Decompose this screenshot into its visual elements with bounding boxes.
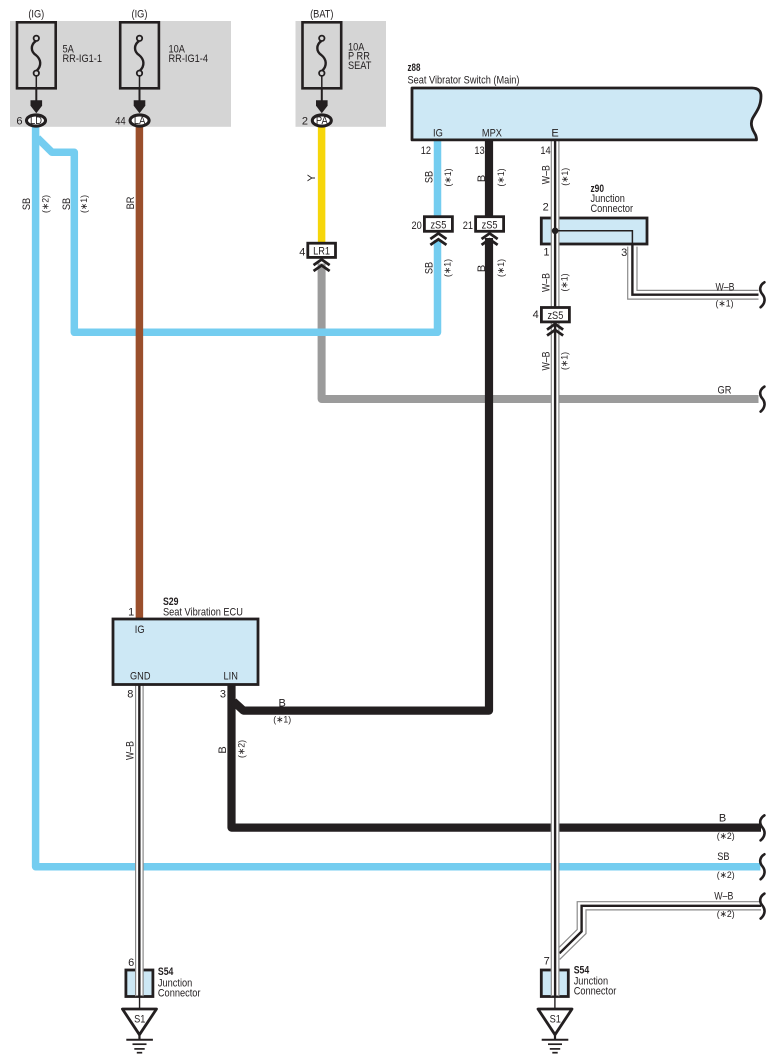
junction connector z90 box <box>541 218 647 244</box>
connector LR1 box pin 4 <box>308 243 336 257</box>
svg-text:zS5: zS5 <box>430 219 446 231</box>
wire BR from LA to S29 IG <box>136 127 144 620</box>
svg-text:MPX: MPX <box>482 128 503 140</box>
svg-text:Y: Y <box>306 174 318 182</box>
fuse RR-IG1-4 output arrow <box>139 88 141 101</box>
svg-text:B: B <box>279 697 286 709</box>
connector zS5 pin 21 chevrons <box>482 233 498 245</box>
svg-text:20: 20 <box>412 220 422 232</box>
continuation brace GR <box>760 387 764 412</box>
svg-text:1: 1 <box>543 247 549 259</box>
svg-text:(∗1): (∗1) <box>559 274 570 292</box>
svg-text:3: 3 <box>621 247 627 259</box>
svg-text:SEAT: SEAT <box>348 60 372 72</box>
wire B from z88 MPX pin 13 to zS5 21 <box>485 140 493 218</box>
svg-text:W–B: W–B <box>716 282 735 294</box>
svg-text:LD: LD <box>30 115 42 127</box>
connector LD oval <box>27 115 46 126</box>
wire jumper inside z90 from pin 2 net to pin 3 <box>555 231 632 247</box>
connector zS5 box pin 20 <box>424 217 452 232</box>
svg-text:Connector: Connector <box>158 988 201 1000</box>
wire B (*2) from S29 LIN down and right to edge <box>232 685 762 828</box>
svg-text:(∗2): (∗2) <box>717 909 735 920</box>
svg-text:W–B: W–B <box>540 352 552 371</box>
fuse P RR SEAT output arrow <box>321 88 323 101</box>
svg-text:(∗1): (∗1) <box>442 259 453 277</box>
svg-text:BR: BR <box>125 197 137 210</box>
ground lead S54 left to S1 <box>139 997 141 1010</box>
svg-text:B: B <box>719 813 726 825</box>
connector zS5 pin 20 chevrons <box>430 233 446 245</box>
svg-text:B: B <box>217 746 229 753</box>
svg-text:(∗1): (∗1) <box>443 169 454 187</box>
svg-text:Connector: Connector <box>574 986 617 998</box>
fuse P RR SEAT element <box>317 36 325 89</box>
svg-text:7: 7 <box>544 956 550 968</box>
svg-text:(IG): (IG) <box>132 9 148 21</box>
junction connector S54 (right) box <box>541 970 568 997</box>
ground S1 (left) stem <box>138 1033 140 1040</box>
svg-text:E: E <box>551 128 558 140</box>
svg-text:S1: S1 <box>550 1014 561 1026</box>
continuation brace SB (*2) <box>760 854 764 879</box>
connector zS5 box pin 4 <box>541 308 569 322</box>
switch z88 Seat Vibrator Switch (Main) body <box>412 88 761 140</box>
wire SB (*2) from LD down and right to edge <box>36 127 761 867</box>
svg-text:GND: GND <box>130 671 151 683</box>
fuse P RR SEAT rectangle <box>303 22 342 88</box>
svg-text:12: 12 <box>421 145 431 157</box>
svg-text:44: 44 <box>115 115 125 127</box>
svg-text:LIN: LIN <box>224 671 238 683</box>
svg-text:(∗2): (∗2) <box>717 831 735 842</box>
wire Y from PA to LR1 <box>318 127 326 245</box>
svg-text:W–B: W–B <box>125 741 137 760</box>
svg-text:(∗1): (∗1) <box>79 195 90 213</box>
svg-text:3: 3 <box>220 689 226 701</box>
connector LR1 chevrons <box>314 260 330 272</box>
svg-text:RR-IG1-4: RR-IG1-4 <box>169 53 209 65</box>
svg-text:6: 6 <box>16 115 22 127</box>
svg-text:PA: PA <box>316 115 328 127</box>
svg-text:SB: SB <box>717 851 729 863</box>
svg-text:IG: IG <box>135 624 145 636</box>
wire SB from z88 IG pin 12 to zS5 20 <box>434 140 442 218</box>
svg-text:S54: S54 <box>158 966 174 978</box>
svg-text:B: B <box>476 265 488 272</box>
svg-text:Connector: Connector <box>591 203 634 215</box>
fuse RR-IG1-1 output arrow <box>35 88 37 101</box>
fuse block background (BAT fuse) <box>296 21 387 127</box>
svg-text:B: B <box>476 175 488 182</box>
ground S1 (right) stem <box>554 1033 556 1040</box>
svg-text:SB: SB <box>423 171 435 183</box>
svg-text:(∗1): (∗1) <box>496 169 507 187</box>
svg-text:13: 13 <box>474 145 484 157</box>
fuse RR-IG1-1 element <box>32 36 40 89</box>
wire W-B from S29 GND pin 8 to S54 pin 6 <box>136 685 144 997</box>
fuse RR-IG1-4 rectangle <box>120 22 159 88</box>
fuse RR-IG1-4 element <box>135 36 143 89</box>
svg-text:(∗1): (∗1) <box>496 259 507 277</box>
svg-text:14: 14 <box>540 145 550 157</box>
svg-text:4: 4 <box>533 309 539 321</box>
svg-text:2: 2 <box>543 202 549 214</box>
svg-text:1: 1 <box>128 607 134 619</box>
svg-text:GR: GR <box>718 385 732 397</box>
svg-text:(IG): (IG) <box>28 9 44 21</box>
svg-text:(∗1): (∗1) <box>559 352 570 370</box>
svg-text:2: 2 <box>302 115 308 127</box>
node z90 junction dot <box>552 228 559 235</box>
svg-text:6: 6 <box>128 957 134 969</box>
connector zS5 box pin 21 <box>476 217 504 232</box>
connector LA oval <box>130 115 149 126</box>
svg-text:W–B: W–B <box>540 273 552 292</box>
svg-text:(∗1): (∗1) <box>273 714 291 725</box>
svg-text:(∗2): (∗2) <box>236 740 247 758</box>
ground S1 (right) hatch <box>542 1040 569 1053</box>
wire W-B (*1) from z90 pin 3 to right edge <box>628 244 759 299</box>
svg-text:IG: IG <box>433 128 443 140</box>
svg-text:W–B: W–B <box>540 165 552 184</box>
continuation brace B (*2) <box>760 815 764 840</box>
svg-text:zS5: zS5 <box>482 219 498 231</box>
svg-text:W–B: W–B <box>714 891 733 903</box>
svg-text:Seat Vibrator Switch (Main): Seat Vibrator Switch (Main) <box>408 75 520 87</box>
fuse RR-IG1-1 rectangle <box>17 22 56 88</box>
ground S1 (right) triangle <box>538 1009 572 1035</box>
svg-text:(∗2): (∗2) <box>717 870 735 881</box>
svg-text:z88: z88 <box>408 62 421 74</box>
connector PA oval <box>312 115 331 126</box>
svg-text:8: 8 <box>127 689 133 701</box>
wire W-B from z88 E pin 14 through z90 and zS5 4 to S54 pin 7 <box>551 140 559 997</box>
svg-text:LR1: LR1 <box>313 245 330 257</box>
svg-text:SB: SB <box>423 262 435 274</box>
svg-text:21: 21 <box>463 220 473 232</box>
svg-text:LA: LA <box>134 115 146 127</box>
continuation brace W-B (*1) <box>760 282 764 307</box>
svg-text:SB: SB <box>21 198 33 210</box>
wire W-B (*2) from right edge to ground wire <box>557 902 762 960</box>
svg-text:(∗1): (∗1) <box>716 298 734 309</box>
svg-text:Seat Vibration ECU: Seat Vibration ECU <box>163 607 243 619</box>
svg-text:(BAT): (BAT) <box>310 9 333 21</box>
ground S1 (left) hatch <box>126 1040 153 1053</box>
wire GR from LR1 to right edge <box>322 264 759 400</box>
wire B (*1) branch from LIN up to z88 MPX via zS5 21 <box>234 238 490 711</box>
svg-text:(∗2): (∗2) <box>41 195 52 213</box>
junction connector S54 (left) box <box>126 970 153 997</box>
svg-text:SB: SB <box>61 198 73 210</box>
ECU S29 Seat Vibration ECU body <box>113 619 258 685</box>
wire SB (*1) branch from LD feed to zS5 pin 20 <box>38 138 438 332</box>
ground S1 (left) triangle <box>122 1009 156 1035</box>
connector zS5 pin 4 chevrons <box>547 324 563 336</box>
svg-text:S1: S1 <box>134 1014 145 1026</box>
continuation brace W-B (*2) <box>760 894 764 919</box>
ground lead S54 right to S1 <box>554 997 556 1010</box>
svg-text:zS5: zS5 <box>547 310 563 322</box>
fuse block background (IG fuses) <box>10 21 231 127</box>
svg-text:(∗1): (∗1) <box>560 168 571 186</box>
svg-text:RR-IG1-1: RR-IG1-1 <box>63 53 103 65</box>
svg-text:4: 4 <box>299 246 305 258</box>
